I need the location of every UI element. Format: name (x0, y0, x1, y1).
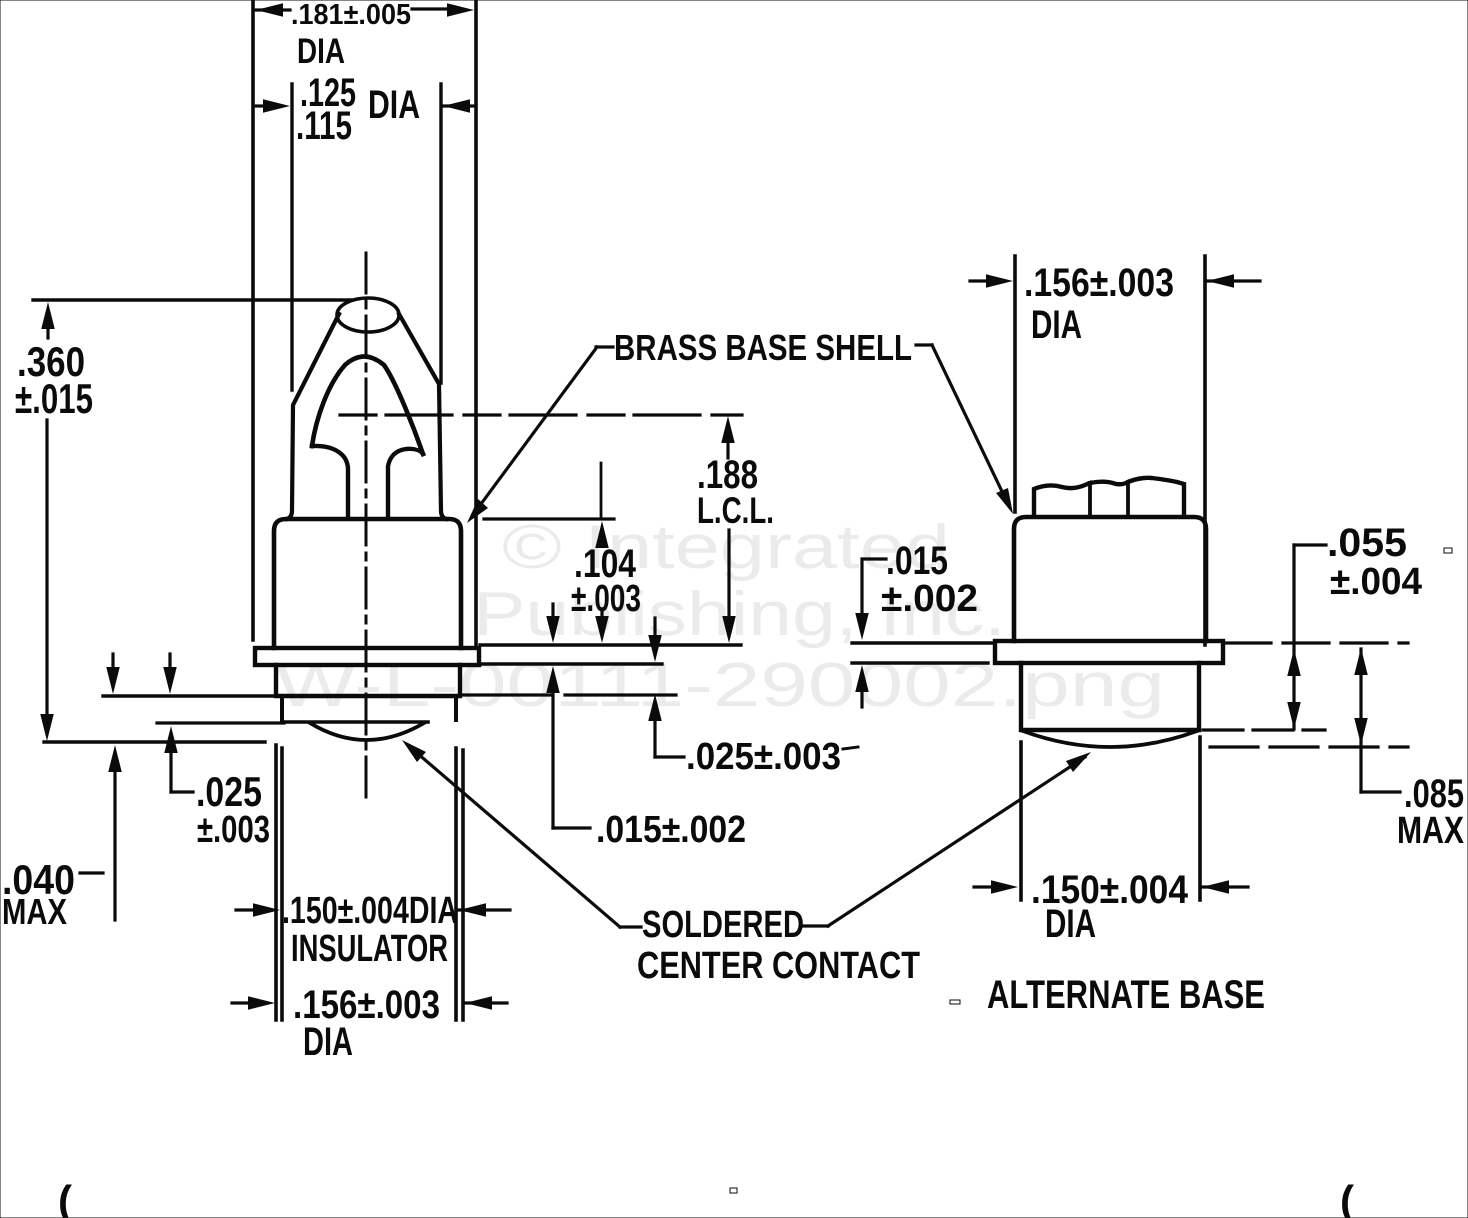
dimension .025 right lower arrow, stem to label (648, 694, 662, 721)
svg-text:.115: .115 (296, 104, 352, 148)
stray dot near .055 (1444, 548, 1452, 553)
svg-text:SOLDERED: SOLDERED (642, 904, 804, 946)
insulator sides (left) (280, 697, 284, 722)
base top reference line extended right (484, 517, 614, 520)
dimension .085: stem arrows bracket (1359, 649, 1362, 792)
light center line (LCL) dashed at y414 (340, 413, 742, 416)
svg-text:DIA: DIA (1045, 902, 1096, 946)
svg-text:.015: .015 (886, 539, 948, 583)
dimension .156 arrows bottom (232, 1001, 258, 1004)
dimension .125/.115 arrows (256, 104, 264, 107)
lower barrel / skirt (left) (276, 665, 460, 696)
reference line insulator bottom left (y723) (157, 721, 284, 724)
leader soldered contact to left lamp (620, 925, 641, 928)
svg-text:.181±.005: .181±.005 (291, 0, 411, 31)
flange top reference extended right dashed (1225, 641, 1408, 644)
extension lines .156 dia bottom right pair (454, 748, 458, 1020)
filament right foot and lead wire (388, 449, 423, 518)
svg-text:(: ( (1340, 1177, 1354, 1218)
crimp divider 1 (1088, 483, 1092, 516)
svg-text:ALTERNATE BASE: ALTERNATE BASE (987, 973, 1265, 1017)
dimension .055: bracket stem arrows (1294, 543, 1326, 546)
barrel bottom reference extended right (dashed) (462, 693, 551, 696)
bulb glass left edge (287, 314, 339, 519)
extension line .156 right-fig right (1203, 256, 1207, 645)
dimension .188 upper arrow (721, 416, 735, 443)
svg-text:±.004: ±.004 (1330, 561, 1422, 603)
soldered contact bump (right) (1023, 731, 1197, 747)
extension line .156 right-fig left (1013, 256, 1017, 512)
stray dot near alternate base (950, 1000, 960, 1004)
dimension .181+-.005 arrows (256, 3, 283, 17)
dimension .150 arrows (right fig) (974, 885, 1000, 888)
leader brass base shell to left lamp (596, 345, 613, 348)
reference line contact bottom (y742) (44, 740, 265, 743)
lower barrel / skirt (right) (1021, 663, 1199, 730)
extension line .181 dia right (474, 0, 478, 648)
dimension .015 left lower arrow, stem to label (546, 666, 560, 693)
base flange (left) (255, 648, 479, 665)
dimension .025 left up arrow and stem (164, 726, 178, 753)
leader soldered contact to right lamp (803, 924, 828, 927)
dimension .150 insulator arrows (236, 908, 263, 911)
filament left foot and lead wire (312, 446, 348, 518)
svg-text:MAX: MAX (2, 891, 67, 932)
dimension .188 stem and lower arrow (727, 530, 730, 616)
svg-text:CENTER CONTACT: CENTER CONTACT (637, 945, 920, 987)
extension line .125 dia right (439, 84, 442, 383)
bump bottom reference extended right dashed (1210, 745, 1408, 748)
svg-text:(: ( (58, 1177, 72, 1218)
dimension .156 arrows (right fig) (970, 279, 996, 282)
dimension .104 upper arrow (595, 521, 609, 548)
svg-text:±.003: ±.003 (571, 578, 641, 620)
flange top reference extended right (480, 643, 741, 646)
dimension .025 left down arrow (168, 654, 171, 667)
svg-text:DIA: DIA (297, 32, 345, 71)
svg-text:INSULATOR: INSULATOR (291, 928, 448, 970)
svg-text:.156±.003: .156±.003 (1024, 261, 1174, 305)
insulator bottom face (left) (284, 720, 428, 724)
dimension .015 left upper arrow (551, 604, 554, 617)
dimension .104 lower arrow (600, 612, 603, 617)
dimension .015 right: bracket and arrows (863, 557, 886, 560)
extension line .181 dia left (251, 0, 255, 640)
base flange (right) (995, 641, 1223, 663)
svg-text:.150±.004DIA: .150±.004DIA (282, 890, 458, 932)
dimension .360 upper arrow (41, 302, 55, 329)
flange bottom reference extended right (480, 662, 662, 665)
svg-text:DIA: DIA (303, 1020, 353, 1064)
dimension .025 right upper arrow (653, 618, 656, 634)
dimension .040 max arrow and stem (108, 745, 122, 772)
svg-text:.025: .025 (196, 768, 262, 815)
extension line .125 dia left (290, 84, 293, 390)
stray dot below center (730, 1188, 737, 1193)
flange bottom reference extended left (right fig) (852, 661, 988, 664)
bulb dome ellipse (337, 298, 399, 332)
svg-text:BRASS BASE SHELL: BRASS BASE SHELL (614, 327, 912, 368)
brass base shell body (left) (274, 519, 461, 648)
svg-text:±.002: ±.002 (881, 578, 978, 620)
svg-text:L.C.L.: L.C.L. (697, 490, 774, 531)
flange top reference extended left (right fig) (852, 641, 995, 644)
dimension .040 upper arrow (down at y696) (111, 654, 114, 667)
vertical centerline of lamp (365, 253, 368, 800)
reference line barrel bottom left (y696) (103, 694, 274, 697)
barrel bottom reference extended right dashed (1203, 728, 1325, 731)
short tick above base top line (600, 463, 603, 517)
svg-text:.055: .055 (1327, 521, 1407, 565)
reference line bulb top (.360 upper) (33, 298, 351, 301)
crimp divider 2 (1126, 482, 1130, 516)
soldered contact bump (left) (310, 723, 424, 740)
extension line .150 right-fig left (1019, 742, 1023, 900)
crimped top band (1034, 478, 1184, 516)
svg-text:.015±.002: .015±.002 (596, 809, 746, 851)
extension line .150 right-fig right (1198, 737, 1202, 900)
leader brass base shell to right lamp (916, 343, 932, 346)
svg-text:DIA: DIA (368, 83, 420, 127)
svg-text:±.003: ±.003 (197, 809, 270, 851)
dimension .360 stem and lower arrow (45, 420, 48, 715)
brass base shell body (right) (1014, 517, 1206, 641)
svg-text:MAX: MAX (1397, 810, 1465, 852)
filament support arch (312, 357, 423, 455)
bulb glass right edge (399, 314, 446, 519)
svg-text:±.015: ±.015 (15, 375, 93, 422)
svg-text:.025±.003: .025±.003 (686, 736, 841, 778)
svg-text:DIA: DIA (1031, 303, 1082, 347)
extension lines .156 dia bottom left pair (274, 745, 278, 1020)
